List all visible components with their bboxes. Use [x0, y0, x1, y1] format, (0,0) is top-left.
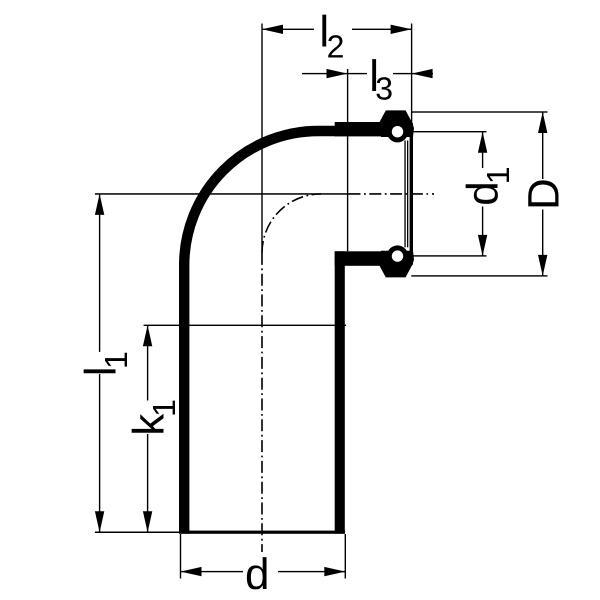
dimension D bottom arrow (pointing down)	[538, 255, 547, 276]
dimension d1 line lower segment	[482, 207, 483, 256]
pipe elbow body: left wall + outer bend arc + top wall (stroked centerline of wall)	[184, 131, 337, 534]
extension line: d1 bottom	[413, 255, 487, 256]
dimension l2 line right segment	[352, 29, 412, 30]
socket top gasket bump	[379, 110, 414, 137]
dimension l1 line lower segment	[99, 374, 100, 532]
extension line: D bottom	[411, 275, 547, 276]
socket bottom gasket bump	[379, 251, 414, 278]
svg-text:2: 2	[327, 28, 345, 64]
dimension l3 line right segment (span end + tail)	[393, 73, 433, 74]
extension line: l2/l3 right (socket face)	[411, 24, 412, 124]
dimension d1 top arrow (pointing up)	[478, 132, 487, 153]
label d1 (rotated)	[459, 167, 517, 206]
dimension l3 left arrow (outside, pointing right)	[327, 69, 348, 78]
dimension k1 bottom arrow (pointing down)	[143, 511, 152, 532]
dimension d right arrow	[324, 567, 345, 576]
dimension l1 line upper segment	[99, 194, 100, 352]
socket top gasket (seal cross-section, white)	[392, 126, 403, 137]
dimension l2 right arrow	[391, 25, 412, 34]
socket mouth face	[410, 123, 413, 265]
dimension l1 bottom arrow (pointing down)	[95, 511, 104, 532]
dimension k1 line lower segment	[147, 434, 148, 532]
dimension l2 left arrow	[262, 25, 283, 34]
extension line: d left	[180, 534, 181, 579]
dimension d line left segment	[181, 571, 244, 572]
vertical centerline of pipe	[261, 253, 263, 552]
dimension D line lower segment	[542, 210, 543, 276]
socket mouth inner chamfer line 1	[404, 141, 405, 248]
dimension D line upper segment	[542, 112, 543, 179]
dimension D top arrow (pointing up)	[538, 112, 547, 133]
extension line: k1 top	[144, 325, 346, 326]
socket top wall bar	[335, 122, 385, 136]
dimension l2 line left segment	[262, 29, 314, 30]
extension line: d right	[345, 534, 346, 579]
socket top gasket ring	[387, 121, 408, 142]
horizontal centerline of socket	[349, 193, 435, 195]
label k1 (rotated)	[125, 399, 183, 436]
extension line: l1 bottom	[95, 532, 180, 534]
dimension l1 top arrow (pointing up)	[95, 194, 104, 215]
socket internal shoulder line (also l3 left extension)	[347, 69, 348, 251]
dimension l3 line left segment (tail + span start)	[302, 73, 367, 74]
svg-text:1: 1	[146, 399, 182, 417]
pipe bottom end face	[179, 531, 345, 534]
dimension l3 right arrow (outside, pointing left)	[412, 69, 433, 78]
socket bottom gasket (seal cross-section, white)	[392, 250, 403, 261]
socket bottom gasket ring	[387, 245, 408, 266]
svg-text:1: 1	[480, 167, 516, 185]
svg-text:3: 3	[375, 71, 393, 107]
bend axis centerline arc	[262, 194, 321, 253]
extension line: D top	[411, 111, 547, 112]
extension line: l2 left (pipe vertical axis up to dim)	[261, 24, 262, 253]
label l1 (rotated)	[76, 351, 134, 376]
dimension k1 top arrow (pointing up)	[143, 325, 152, 346]
dimension d line right segment	[278, 571, 345, 572]
extension line: pipe axis / l1 top (solid)	[95, 193, 349, 195]
svg-text:d: d	[245, 550, 269, 599]
dimension d1 bottom arrow (pointing down)	[478, 235, 487, 256]
dimension d1 line upper segment	[482, 132, 483, 168]
pipe right wall	[335, 251, 345, 533]
svg-text:D: D	[520, 178, 569, 210]
dimension k1 line upper segment	[147, 325, 148, 400]
dimension d left arrow	[181, 567, 202, 576]
svg-text:1: 1	[98, 351, 134, 369]
extension line: d1 top	[413, 131, 487, 132]
socket mouth inner chamfer line 2	[407, 141, 408, 248]
label D (rotated)	[520, 178, 569, 210]
socket bottom wall bar	[335, 251, 385, 265]
